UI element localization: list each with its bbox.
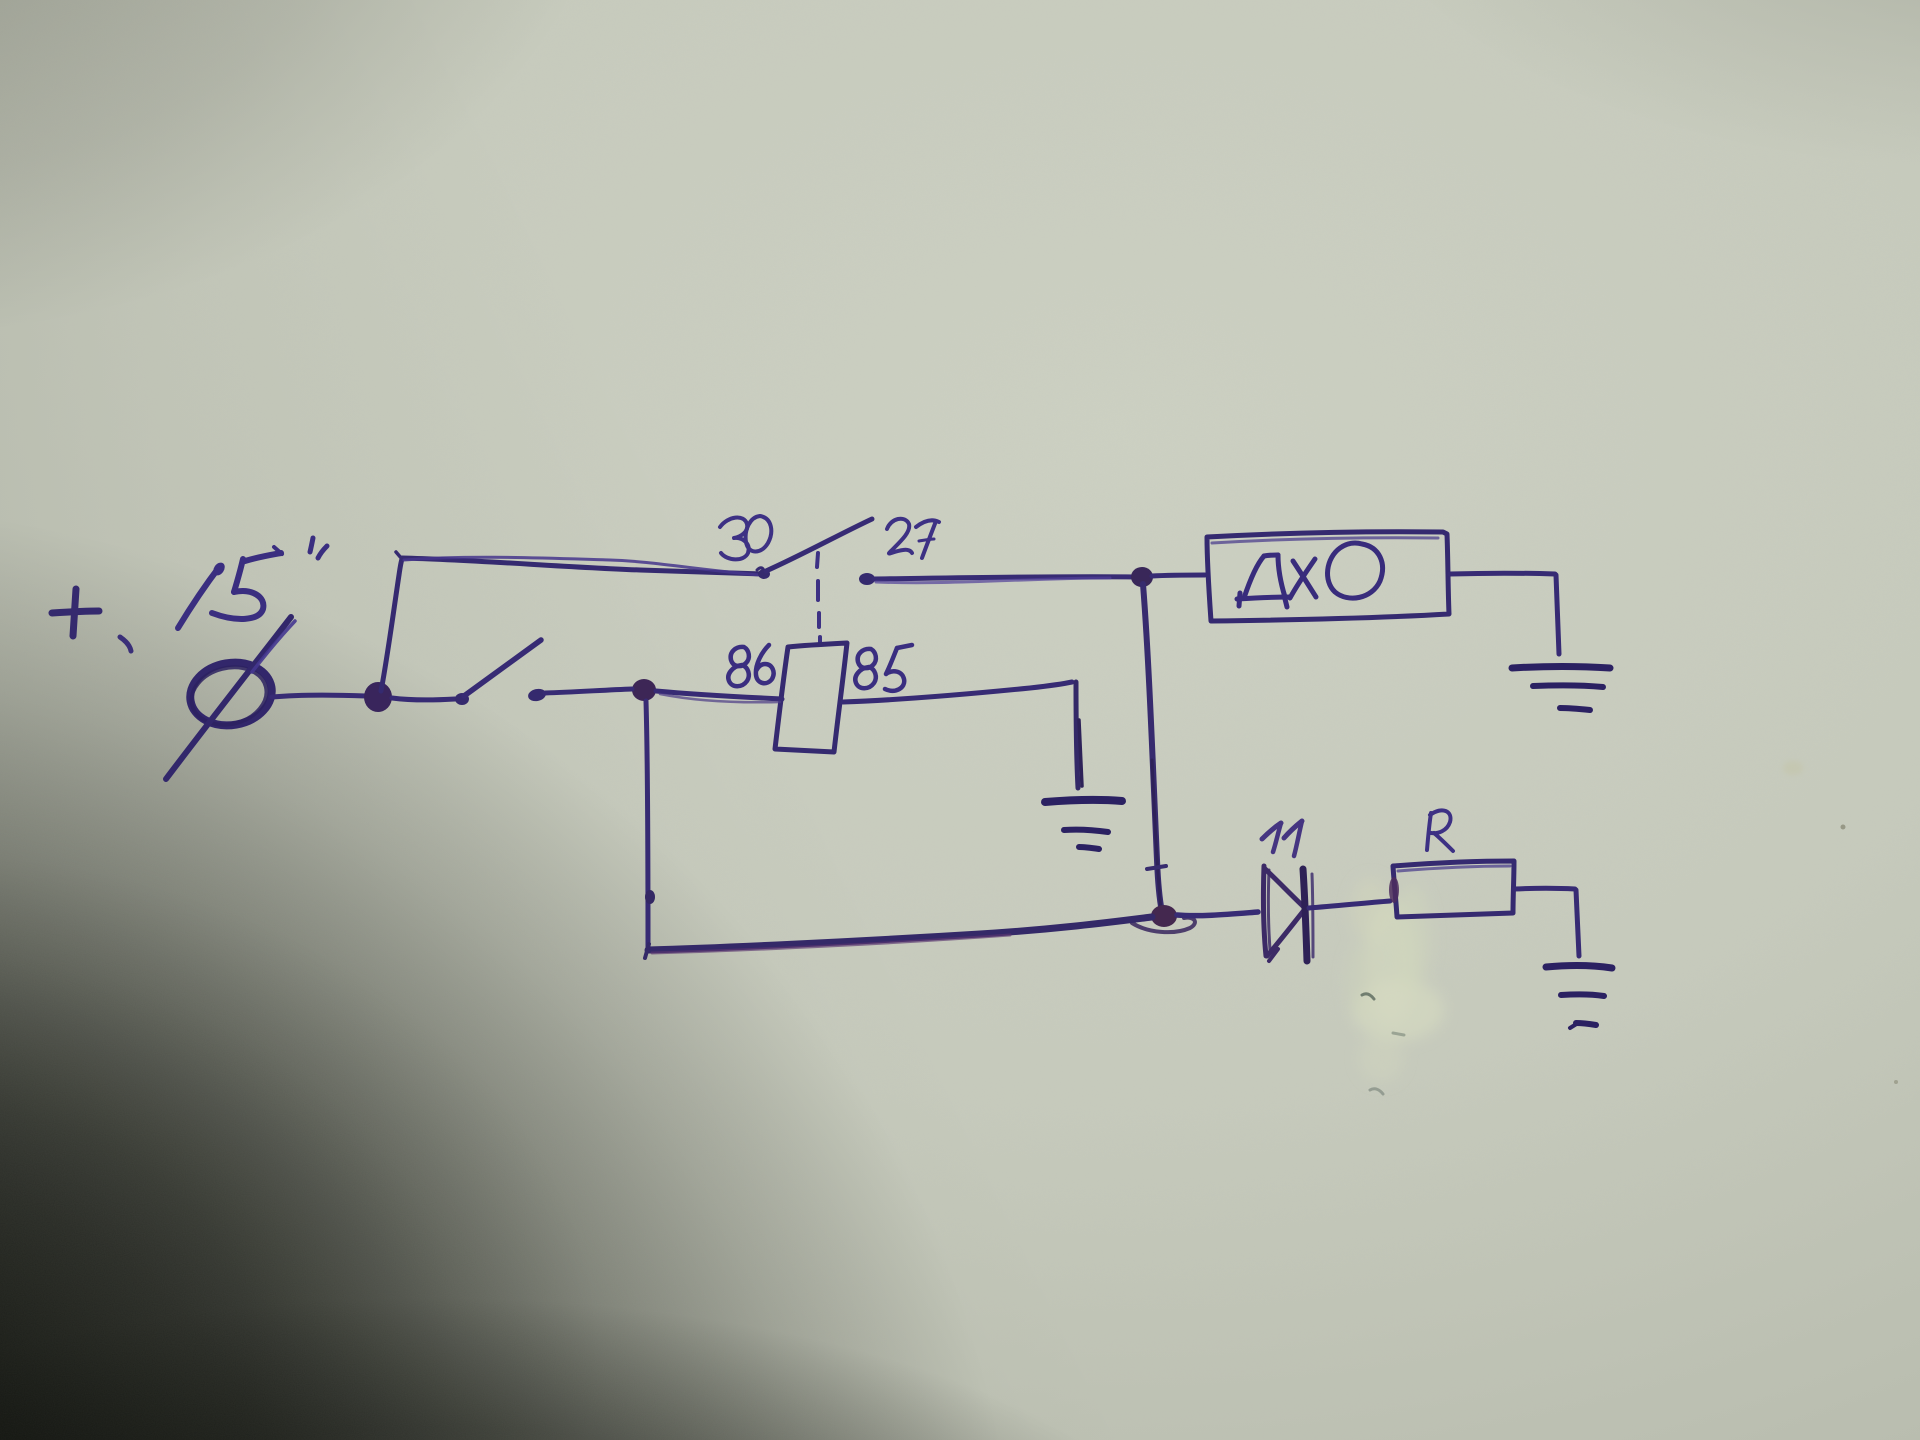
ground 2 (1546, 966, 1612, 1028)
ground 3 (1045, 800, 1122, 849)
paper speck (1841, 825, 1846, 830)
wire node C to LED (1177, 912, 1258, 916)
ink blob on digit 1 (211, 560, 227, 577)
wire down to ground 1 (1556, 575, 1559, 654)
wire node A to ignition switch (392, 698, 455, 700)
wire down to ground 3 (1076, 682, 1082, 788)
label 86 (728, 645, 773, 686)
plus terminal label + (52, 589, 99, 636)
LED cathode bar (1303, 869, 1313, 961)
LED arrows (1262, 821, 1302, 856)
comma mark (120, 637, 131, 651)
wire coil pin 85 right (843, 682, 1072, 702)
node C junction (1151, 905, 1177, 927)
LED diode triangle (1263, 866, 1305, 961)
wire node D down (646, 701, 648, 948)
relay switch blade (766, 519, 872, 571)
wire DRL box to ground corner (1450, 571, 1555, 577)
ignition switch blade (464, 640, 541, 696)
quote mark (310, 538, 327, 558)
ignition switch right contact (527, 687, 547, 702)
wire node A up to top rail (381, 559, 402, 691)
label 87 (887, 519, 939, 558)
wire terminal to node A (272, 695, 366, 697)
node B junction (1131, 567, 1153, 587)
wire 87 to node B (874, 577, 1136, 583)
wire node D to coil pin 86 (656, 691, 782, 699)
letter O (1328, 543, 1383, 598)
label 15 (178, 547, 282, 628)
terminal circle symbol (166, 617, 295, 779)
faint pen marks under smudge (1362, 994, 1374, 999)
letter D (1237, 555, 1290, 607)
tick on vertical wire (1147, 866, 1166, 869)
node A junction (364, 682, 392, 712)
paper speck (1894, 1080, 1898, 1084)
wire top rail to switch contact 30 (402, 557, 764, 575)
paper stain (1783, 761, 1803, 775)
wire switch to node D (545, 689, 632, 693)
wire resistor right (1514, 886, 1575, 892)
ignition switch left contact (455, 693, 469, 705)
node D junction (632, 679, 656, 701)
wire down to ground 2 (1576, 890, 1579, 956)
switch contact 30 (758, 569, 770, 579)
corner tick (396, 552, 402, 559)
wire LED to resistor (1309, 901, 1390, 908)
contact 87 blob (859, 573, 875, 585)
DRL module box (1207, 532, 1449, 621)
wire loop at node C (1132, 918, 1195, 932)
correction fluid smudge (1346, 878, 1444, 1082)
ground 1 (1512, 667, 1610, 711)
label 85 (855, 645, 912, 691)
label 30 (720, 516, 771, 559)
wire bottom rail to node C (645, 917, 1152, 958)
resistor R box (1389, 861, 1514, 917)
wire node B down to node C (1143, 584, 1162, 912)
relay coil box (775, 643, 847, 752)
wire node B to DRL box (1152, 575, 1205, 576)
label R (1427, 810, 1453, 851)
dashed actuator line (817, 553, 820, 645)
ink dot on wire (645, 890, 655, 904)
letter x (1290, 559, 1316, 598)
